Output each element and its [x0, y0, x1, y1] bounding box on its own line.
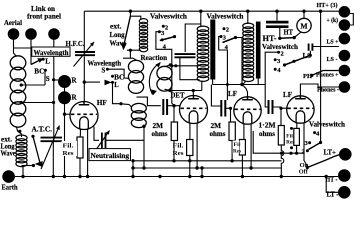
transformer T2 core bar [256, 22, 261, 79]
svg-text:LT+: LT+ [324, 149, 337, 156]
meter M [303, 11, 305, 18]
wire T2 primary bottom to LF1 anode [243, 82, 246, 85]
terminal LT+ [339, 148, 352, 161]
svg-text:Fil.: Fil. [173, 143, 185, 150]
svg-text:S: S [46, 75, 50, 83]
wire earth bus A [15, 176, 338, 178]
wire R2 down to HF grid [64, 104, 66, 115]
wire LF2 anode up and to phones [300, 84, 338, 96]
resistor Fil. Res. 1 [79, 135, 81, 137]
terminal HT- [338, 169, 351, 182]
svg-text:Valveswitch: Valveswitch [150, 12, 187, 20]
svg-text:Wavelength: Wavelength [88, 59, 122, 67]
reaction coupling arrow [149, 63, 160, 95]
valveswitch3 bracket wire [265, 52, 278, 84]
wire grid of HF valve [65, 113, 71, 115]
label Fil Res 3 [233, 141, 240, 154]
wire reaction coil top to tap node [165, 65, 171, 67]
wire top rail left end down to H.F.C. [83, 11, 85, 51]
wire neutralising cap right plate to detector grid line [106, 139, 145, 141]
junction rail / transformer T2 [246, 10, 249, 13]
junction L6 bottom [142, 125, 145, 128]
wire L1 bottom to L2 [17, 127, 22, 137]
wire anode node to capacitor C3 left plate [211, 85, 221, 107]
svg-text:S: S [102, 68, 106, 75]
terminal + (k) [339, 19, 351, 31]
wire HF cathode side to neutralising capacitor [94, 127, 99, 141]
wire reaction/anode line [170, 90, 202, 92]
wire A.T.C. bottom to earth bus [52, 141, 54, 176]
capacitor neutralising (variable) [102, 133, 106, 149]
capacitor C1 anode bypass [175, 54, 196, 57]
junction rail / HT bypass capacitor [275, 10, 278, 13]
wire node line down to C3 [226, 85, 228, 101]
junction anode/wavelength-2 feed [83, 80, 86, 83]
svg-text:LF: LF [228, 90, 238, 98]
wire aerial down to coil L1 [14, 40, 17, 57]
switch arm aerial tap selector [31, 135, 34, 138]
svg-text:Valveswitch: Valveswitch [309, 121, 345, 129]
label box Neutralising [89, 149, 131, 161]
svg-text:BC: BC [34, 68, 44, 76]
capacitor C5 HT bypass [266, 22, 289, 27]
junction rail / output drop [319, 10, 322, 13]
terminal R1 (grid bias plug) [58, 75, 71, 88]
junction rail / transformer T1 [199, 10, 202, 13]
wire x320 drop from rail [320, 11, 322, 142]
svg-text:Fil: Fil [234, 142, 242, 148]
DET filament legs [189, 123, 191, 139]
svg-text:2M: 2M [211, 123, 222, 130]
wire PH to Phones+ [312, 71, 339, 76]
wire L contact down to anode coil L6 [113, 82, 121, 103]
svg-text:A.T.C.: A.T.C. [32, 126, 53, 134]
wire Fil.Res 1 to bus [79, 158, 81, 177]
wire C2 to DET grid [167, 105, 180, 107]
wire Fil.Res4 bottom [296, 145, 298, 153]
terminal Earth [2, 170, 15, 183]
valve LF2 (output V4) [287, 96, 314, 123]
wire S contact to terminal R1 [54, 79, 59, 81]
inductor L6 HF anode coil [120, 104, 132, 107]
valveswitch2 contact 2 [223, 27, 226, 30]
svg-text:Res: Res [233, 149, 241, 155]
valveswitch3 contact 3 [274, 58, 277, 61]
svg-text:Res: Res [63, 150, 75, 157]
switch ext.L.W. arm from rail [130, 11, 140, 20]
svg-text:HT+ (3): HT+ (3) [317, 2, 338, 9]
junction rail / ext LW switch [129, 10, 132, 13]
wire coil tap to selector arm [22, 165, 35, 167]
svg-text:Wave: Wave [1, 151, 16, 158]
svg-text:DET: DET [171, 91, 185, 99]
svg-text:Phones +: Phones + [316, 72, 339, 79]
svg-text:Reaction: Reaction [141, 54, 168, 62]
wire Fil.Res 3 to bus [241, 155, 243, 177]
LF2 filament legs [296, 123, 298, 129]
junction dots on bus C [200, 166, 203, 169]
valveswitch1 bracket wire [156, 32, 174, 106]
wire L3 bottom to switch and grid coil [127, 49, 141, 51]
switch S2 arm (on L) [105, 80, 112, 86]
wire S2-S contact to grid coil tap [107, 69, 129, 78]
capacitor C6 tone (LS) [309, 44, 313, 51]
wire grid leak 1 to bus [173, 141, 175, 161]
wire grid circuit to capacitor C2 [137, 97, 161, 106]
terminal: link right [48, 28, 60, 40]
terminal LT- [338, 186, 351, 199]
switch S1 arm with arrow to L contact [31, 60, 41, 65]
svg-text:Fil.: Fil. [286, 135, 295, 140]
resistor 2M grid leak 2 [229, 122, 235, 141]
transformer T1 primary winding [200, 11, 202, 27]
svg-text:2M: 2M [153, 123, 164, 130]
junction rail / meter M [302, 10, 305, 13]
variable capacitor H.F.C. [75, 52, 95, 55]
svg-text:Long: Long [1, 144, 16, 151]
svg-text:Long: Long [110, 31, 125, 39]
LF1 filament legs [243, 124, 245, 140]
switch HT contacts [278, 37, 281, 40]
wire tap from switch line to T1 winding [172, 65, 199, 67]
wire L6 bottom down to bus [143, 126, 145, 168]
wire bus to LT- branch [326, 177, 338, 193]
svg-text:HT-: HT- [263, 34, 277, 43]
transformer T2 primary winding [247, 11, 249, 24]
link wire HT+ to +k [350, 14, 353, 26]
svg-text:LS -: LS - [327, 56, 338, 63]
valveswitch4 contact 4 [313, 131, 316, 134]
capacitor C4 coupling LF1-LF2 [269, 100, 273, 114]
wire L2 bottom to earth bus [22, 166, 24, 177]
valveswitch4 arm [309, 143, 321, 150]
wire R1 to R2 [64, 86, 66, 92]
svg-text:1·2M: 1·2M [259, 123, 277, 130]
wire LS cap to arm [309, 51, 311, 55]
terminal Phones+ [339, 65, 351, 77]
svg-text:Wavelength: Wavelength [34, 49, 69, 57]
On/Off arm to LT+ [307, 155, 339, 168]
valveswitch1 contact 4 [161, 38, 164, 41]
resistor Fil. Res. 3 [239, 140, 245, 156]
wire link-left terminal down to wavelength switch arm [30, 40, 32, 65]
resistor Fil. Res. 2 [187, 140, 193, 156]
wire H.F.C. to HF anode [83, 56, 85, 101]
inductor L3 ext Long Wave coil [139, 19, 147, 24]
wire C4 to LF2 grid [273, 107, 287, 108]
svg-text:Neutralising: Neutralising [91, 152, 130, 160]
wire filament feed loop [253, 131, 304, 153]
junction R line / HF grid [63, 113, 66, 116]
resistor 1-2M grid leak 3 [280, 108, 282, 125]
svg-text:ohms: ohms [152, 131, 168, 138]
valveswitch1 arm [160, 37, 175, 41]
inductor L4 detector grid coil [123, 58, 136, 60]
label Fil. Res 1 [62, 141, 78, 156]
terminal HT+ (3) [339, 6, 351, 18]
svg-text:Earth: Earth [2, 184, 18, 192]
svg-text:Res: Res [286, 141, 294, 146]
wire grid leak 3 down with hops to bus [281, 145, 284, 177]
svg-text:Fil.: Fil. [63, 143, 75, 150]
valveswitch3 contact 4 [274, 68, 277, 71]
terminal Phones- [339, 81, 351, 93]
valve HF (triode V1) [70, 102, 98, 130]
valve DET (detector V2) [180, 96, 208, 124]
wire C1 bottom plate to T1 winding bottom [180, 58, 200, 80]
switch S1 contact L [42, 58, 45, 61]
resistor Fil. Res. 4 [294, 128, 300, 145]
svg-text:front panel: front panel [27, 13, 61, 21]
capacitor C3 interstage coupling [221, 100, 225, 117]
wire link-right terminal down through S contact to A.T.C. [53, 40, 55, 141]
svg-text:Off: Off [299, 168, 309, 175]
wire valveswitch2 pivot down to node line [236, 38, 243, 85]
wire HT+ top rail [84, 10, 338, 12]
tap on L1 to BC contact [20, 83, 23, 86]
svg-text:M: M [300, 22, 307, 31]
wire C6 to LS terminal [312, 46, 338, 48]
svg-text:+ (k): + (k) [327, 17, 339, 24]
terminal: Aerial [8, 28, 20, 40]
valve LF1 (first audio V3) [234, 97, 261, 124]
wire filament bus B [133, 160, 282, 162]
valveswitch3 arm to LS [283, 63, 286, 66]
label Wavelength (switch S1) in box [32, 47, 70, 56]
valveswitch2 arm [223, 38, 236, 43]
wire node line down to C4 [265, 85, 268, 108]
svg-text:H.F.C.: H.F.C. [66, 39, 85, 48]
svg-text:LS: LS [303, 53, 312, 60]
wire C3 to LF1 grid [225, 107, 230, 109]
wire T1 primary bottom to anode line [201, 81, 203, 91]
wire reaction coil bottom to anode line [165, 89, 170, 90]
svg-text:ext.: ext. [1, 137, 12, 144]
wire C1 top plate to T1 primary top [185, 24, 201, 52]
svg-text:HF: HF [97, 99, 108, 107]
terminal LS+ [339, 33, 351, 45]
svg-text:LF: LF [283, 91, 293, 99]
svg-text:Aerial: Aerial [4, 18, 22, 27]
wire bus B-C-A link at x133 [132, 161, 134, 177]
junction dots on bus A [158, 175, 161, 178]
valveswitch2 contact 3 [220, 35, 223, 38]
wire meter to switch [294, 32, 301, 38]
lower tap on L1 [20, 101, 23, 104]
wire link to aerial lead [14, 47, 32, 49]
svg-text:Valveswitch: Valveswitch [207, 12, 244, 20]
variable capacitor A.T.C. [41, 138, 63, 142]
inductor L2 ext. Long Wave loading coil [16, 135, 27, 141]
wire R line down to bus [64, 114, 66, 176]
wire DET anode riser [192, 91, 194, 96]
svg-text:LS +: LS + [327, 39, 339, 46]
capacitor C2 grid condenser [163, 99, 167, 115]
wire LF1 grid to leak 2 [230, 108, 232, 122]
svg-text:L: L [45, 58, 50, 66]
wire rail to capacitor C5 [276, 11, 278, 21]
inductor L1 aerial coil [10, 56, 26, 70]
wire anode node to wavelength switch 2 arm [84, 81, 100, 83]
valveswitch1 contact 3 [158, 30, 161, 33]
junction L2/earth bus [21, 175, 24, 178]
inductor L5 reaction coil [157, 66, 172, 80]
wire filament bus to On/Off contact [304, 153, 307, 166]
resistor 2M grid leak 1 [173, 106, 175, 122]
wire C5 bottom to HT- switch [279, 27, 281, 37]
terminal LS- [339, 50, 351, 62]
transformer T1 core bar [210, 20, 215, 80]
terminal: link left [25, 28, 37, 40]
wire Fil.Res 2 to buses [189, 156, 191, 177]
valveswitch1 contact 2 [162, 25, 165, 28]
valveswitch2 bracket wire [219, 37, 228, 85]
wire grid return bus C [133, 167, 281, 169]
svg-text:Phones -: Phones - [317, 87, 339, 94]
wire T2 secondary bottom [257, 79, 259, 85]
svg-text:BC: BC [114, 74, 124, 81]
wire grid leak 2 to bus [231, 141, 233, 161]
terminal R2 (grid bias plug) [58, 91, 71, 104]
svg-text:ohms: ohms [210, 131, 226, 138]
svg-text:Res: Res [173, 150, 185, 157]
svg-text:HT: HT [284, 29, 294, 37]
wire T1 secondary (bar) bottom to common node line [212, 80, 214, 85]
svg-text:ohms: ohms [259, 131, 275, 138]
filament legs of HF valve [79, 129, 81, 135]
valveswitch3 contact 2 [277, 51, 280, 54]
svg-text:ext.: ext. [110, 23, 122, 31]
svg-text:L: L [114, 82, 119, 89]
